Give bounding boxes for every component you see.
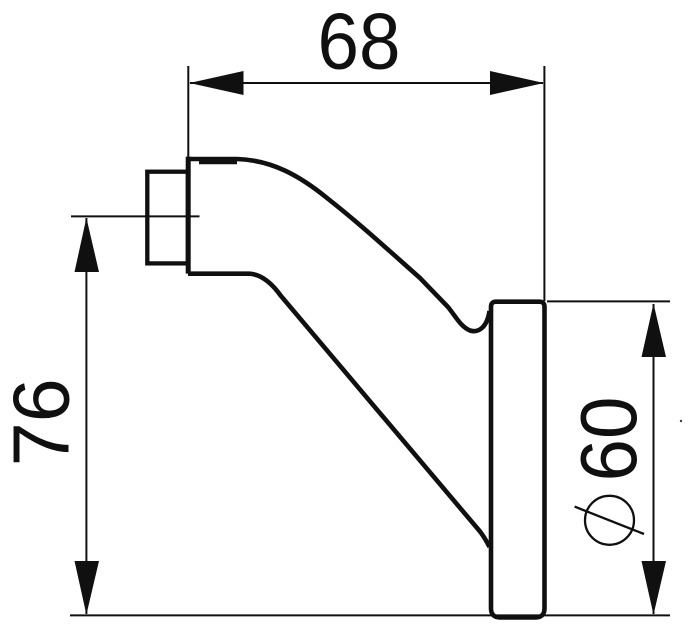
bottom extension line shared by 76 and 60	[70, 614, 670, 616]
extension line right of dimension 68	[543, 66, 545, 301]
scan speck	[680, 420, 682, 422]
extension line top of dimension 76	[71, 215, 200, 217]
connector plug rectangle	[147, 172, 188, 264]
body left vertical edge	[186, 157, 191, 274]
svg-text:76: 76	[0, 378, 86, 466]
diameter symbol circle	[585, 496, 634, 545]
arrowhead 60 bottom	[642, 561, 667, 615]
arrowhead 68 right	[490, 71, 544, 95]
arrowhead 76 top	[75, 218, 100, 272]
arrowhead 76 bottom	[75, 561, 100, 615]
dimension line 76	[85, 218, 87, 614]
dimension line diameter 60	[653, 304, 655, 614]
extension line top of dimension 60	[547, 300, 670, 302]
dimension line 68	[190, 82, 543, 84]
svg-text:68: 68	[318, 0, 401, 86]
svg-text:60: 60	[564, 397, 653, 482]
lamp capsule rounded body	[491, 302, 545, 618]
diameter symbol slash	[575, 507, 644, 534]
body top contour	[188, 159, 490, 331]
body bottom contour	[188, 274, 490, 547]
body top contour thickened segment	[199, 157, 237, 164]
arrowhead 60 top	[642, 304, 667, 358]
arrowhead 68 left	[190, 71, 244, 95]
extension line left of dimension 68	[187, 66, 189, 158]
